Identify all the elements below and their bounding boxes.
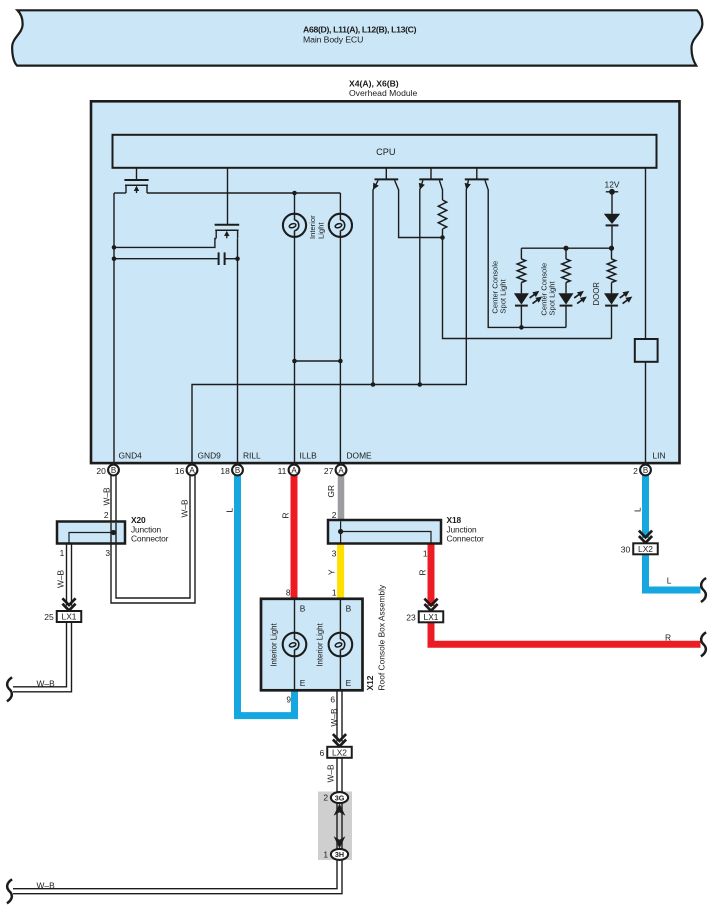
node Q4 emitter junction — [418, 382, 423, 387]
svg-text:A: A — [338, 466, 344, 475]
junction connector X18 — [328, 520, 441, 544]
pin label DOME — [347, 450, 373, 460]
wire W-B below 3H to left break — [13, 859, 342, 894]
wire led supply rail — [521, 247, 612, 249]
resistor R4 — [607, 248, 615, 293]
connector arrows to LX2 (roof) — [333, 734, 346, 747]
node lamp2 bottom — [338, 359, 343, 364]
svg-text:L: L — [632, 507, 642, 512]
node capacitor right junction — [235, 256, 240, 261]
node Q3 emitter junction — [371, 382, 376, 387]
LED center console spot light 2 — [559, 291, 587, 328]
svg-text:W–B: W–B — [37, 880, 56, 890]
wire R from X18 pin1 red — [431, 544, 701, 645]
svg-text:3H: 3H — [335, 850, 344, 859]
label W-B (bottom-left mid) — [37, 678, 56, 688]
connector terminal 3G — [331, 792, 348, 803]
transistor Q4 — [419, 168, 443, 190]
banner label A68/L11/L12/L13 — [303, 25, 417, 45]
svg-text:RILL: RILL — [243, 450, 261, 460]
svg-text:L: L — [667, 576, 672, 586]
svg-text:25: 25 — [44, 612, 54, 622]
svg-text:LIN: LIN — [653, 450, 666, 460]
node Q3/R1 junction — [440, 235, 445, 240]
3H pin number 1 — [323, 849, 328, 859]
pin label LIN — [653, 450, 666, 460]
svg-text:1: 1 — [332, 588, 337, 598]
lamp interior light 3 — [283, 599, 307, 691]
svg-text:W–B: W–B — [329, 708, 339, 727]
lamp interior light 4 — [329, 599, 353, 691]
wire R1 junction to DOOR led return — [443, 238, 612, 339]
lamp interior light 1 — [283, 193, 306, 465]
pin 20 (B) GND4 — [96, 465, 118, 476]
svg-text:LX1: LX1 — [62, 612, 77, 622]
svg-text:16: 16 — [175, 466, 185, 476]
svg-text:B: B — [235, 466, 240, 475]
LED DOOR — [604, 291, 632, 339]
node capacitor left junction — [112, 256, 117, 261]
svg-text:CPU: CPU — [376, 147, 395, 157]
wire W-B 3G to 3H — [337, 802, 342, 850]
label R (X18 pin1) — [417, 569, 427, 575]
wire R (ILLB) red — [291, 476, 298, 600]
pin label GND9 — [198, 450, 222, 460]
label center console spot light 2 — [540, 263, 557, 316]
svg-text:2: 2 — [633, 466, 638, 476]
transistor Q1 (MOSFET) — [124, 168, 148, 194]
svg-text:27: 27 — [324, 466, 334, 476]
wire lamp bottoms link — [295, 360, 341, 362]
svg-text:W–B: W–B — [179, 499, 189, 518]
label W-B (roof pin6) — [329, 708, 339, 727]
roof pin label E1 — [300, 678, 306, 688]
wire lamp supply rail — [147, 192, 340, 194]
wire W-B roof console pin6 — [337, 691, 342, 747]
label interior light 4 — [315, 622, 324, 666]
svg-text:GND9: GND9 — [198, 450, 222, 460]
svg-text:Overhead Module: Overhead Module — [349, 88, 418, 98]
svg-text:ILLB: ILLB — [300, 450, 318, 460]
wire break left (W-B mid) — [7, 677, 12, 701]
svg-text:11: 11 — [278, 466, 287, 476]
CPU block U1 — [113, 135, 657, 168]
wire Q5 collector / led return rail — [488, 190, 566, 328]
X18 pin 2 number — [332, 510, 337, 520]
wire Q2 source — [114, 239, 216, 248]
roof pin label E2 — [346, 678, 352, 688]
connector 23 LX1 — [406, 611, 443, 622]
wire W-B X20 pin3 to GND9 pin (U-route) — [111, 476, 195, 604]
svg-text:W–B: W–B — [101, 487, 111, 506]
wire W-B X20 pin1 down — [67, 544, 72, 612]
wire L (LIN) cyan — [646, 476, 701, 591]
node led rail / diode junction — [609, 246, 614, 251]
svg-text:18: 18 — [220, 466, 230, 476]
svg-text:6: 6 — [330, 695, 335, 705]
X20 pin 1 number — [60, 548, 65, 558]
transistor Q2 (MOSFET) — [215, 168, 240, 239]
roof pin label B2 — [346, 603, 352, 613]
svg-text:E: E — [300, 678, 306, 688]
svg-text:X20: X20 — [131, 515, 146, 525]
svg-text:X12: X12 — [365, 675, 375, 690]
pin label GND4 — [119, 450, 143, 460]
svg-text:L: L — [225, 508, 235, 513]
label W-B (bottom-left low) — [37, 880, 56, 890]
svg-text:DOME: DOME — [347, 450, 373, 460]
node lamp1 bottom — [292, 359, 297, 364]
roof console box X12 — [261, 599, 363, 691]
wire Q5 emitter / ground bus — [192, 190, 466, 465]
svg-text:2: 2 — [104, 510, 109, 520]
label X18 junction connector — [447, 515, 485, 544]
transistor Q3 — [373, 168, 399, 190]
3G pin number 2 — [323, 793, 328, 803]
junction connector X20 — [57, 522, 125, 544]
wire L (RILL) cyan — [238, 476, 295, 716]
transistor Q5 — [465, 168, 489, 190]
svg-text:DOOR: DOOR — [592, 282, 601, 306]
label W-B (X20 pin1) — [55, 569, 65, 588]
svg-text:1: 1 — [323, 849, 328, 859]
resistor R2 — [517, 248, 525, 293]
pin label ILLB — [300, 450, 318, 460]
label interior light 3 — [270, 622, 279, 666]
wire Y (X18 pin3) yellow — [337, 544, 344, 600]
overhead module box — [91, 101, 680, 463]
label center console spot light 1 — [490, 261, 507, 314]
svg-text:Main Body ECU: Main Body ECU — [303, 35, 363, 45]
arrow up to 3G — [334, 804, 346, 816]
overhead module connector label X4(A), X6(B) — [349, 79, 418, 98]
svg-text:B: B — [643, 466, 648, 475]
svg-text:R: R — [665, 632, 671, 642]
svg-text:20: 20 — [96, 466, 106, 476]
wire GND4 rail — [113, 193, 115, 465]
arrow down to 3H — [334, 836, 346, 848]
label L (RILL) — [225, 508, 235, 513]
label Y (X18) — [327, 569, 337, 575]
node led2 supply junction — [563, 246, 568, 251]
svg-text:Interior Light: Interior Light — [315, 622, 324, 666]
roof pin label B1 — [300, 603, 306, 613]
svg-text:3: 3 — [105, 548, 110, 558]
diode D1 — [604, 192, 620, 248]
svg-text:1: 1 — [60, 548, 65, 558]
X18 pin 1 number — [423, 549, 428, 559]
svg-text:23: 23 — [406, 612, 416, 622]
wire W-B LX1 to left break — [13, 622, 72, 692]
node lamp1 tap — [292, 191, 297, 196]
label R (ILLB) — [281, 512, 291, 518]
svg-text:LX1: LX1 — [424, 612, 439, 622]
label L (right) — [667, 576, 672, 586]
svg-text:8: 8 — [286, 588, 291, 598]
pin 18 (B) RILL — [220, 465, 242, 476]
pin 2 (B) LIN — [633, 465, 651, 476]
X20 pin 2 number — [104, 510, 109, 520]
wire Q2 drain / RILL line — [237, 239, 239, 465]
svg-text:Roof Console Box Assembly: Roof Console Box Assembly — [377, 584, 387, 690]
connector arrows to LX2 (LIN) — [639, 531, 652, 544]
svg-text:3G: 3G — [335, 793, 345, 802]
svg-text:W–B: W–B — [37, 678, 56, 688]
label W-B (GND9) — [179, 499, 189, 518]
label W-B (GND4) — [101, 487, 111, 506]
svg-text:1: 1 — [423, 549, 428, 559]
svg-text:W–B: W–B — [55, 569, 65, 588]
svg-text:A68(D), L11(A), L12(B), L13(C): A68(D), L11(A), L12(B), L13(C) — [303, 25, 417, 35]
wire W-B LX2 to 3G — [337, 758, 342, 793]
svg-text:Connector: Connector — [447, 534, 485, 544]
pin label RILL — [243, 450, 261, 460]
connector 30 LX2 — [621, 543, 658, 554]
node led1 return junction — [519, 325, 524, 330]
roof pin number 9 — [286, 695, 291, 705]
LED center console spot light 1 — [514, 291, 542, 328]
wire break right (R) — [701, 632, 706, 656]
svg-text:Y: Y — [327, 569, 337, 575]
resistor R3 — [562, 248, 570, 293]
label interior light (module) — [308, 215, 325, 239]
svg-text:Interior Light: Interior Light — [270, 622, 279, 666]
svg-text:2: 2 — [332, 510, 337, 520]
svg-text:6: 6 — [320, 748, 325, 758]
wire Q4 emitter — [419, 190, 421, 385]
X18 pin 3 number — [332, 549, 337, 559]
svg-text:12V: 12V — [605, 180, 620, 190]
svg-text:9: 9 — [286, 695, 291, 705]
X20 pin 3 number — [105, 548, 110, 558]
capacitor C1 — [114, 252, 238, 265]
svg-text:LX2: LX2 — [638, 544, 653, 554]
wire Q3 emitter — [372, 190, 374, 385]
roof pin number 6 — [330, 695, 335, 705]
label W-B (LX2 to 3G) — [325, 764, 335, 783]
label X12 roof console box assembly — [365, 584, 387, 690]
pin 16 (A) GND9 — [175, 465, 197, 476]
svg-text:A: A — [291, 466, 297, 475]
svg-text:R: R — [281, 512, 291, 518]
label GR (DOME) — [326, 485, 336, 498]
svg-text:GR: GR — [326, 485, 336, 498]
svg-text:B: B — [346, 603, 352, 613]
inline connector shading — [318, 792, 352, 861]
wire LIN internal upper — [645, 168, 647, 340]
node Q2 source-rail junction — [112, 245, 117, 250]
svg-text:LX2: LX2 — [332, 748, 347, 758]
svg-text:B: B — [111, 466, 116, 475]
connector arrows to LX1 (W-B) — [62, 598, 75, 611]
label DOOR — [592, 282, 601, 306]
lamp interior light 2 — [329, 193, 352, 465]
wire Q1 source to rail — [114, 192, 126, 194]
label R (right) — [665, 632, 671, 642]
connector terminal 3H — [331, 849, 348, 860]
wire Q3 collector — [399, 190, 443, 238]
svg-text:30: 30 — [621, 544, 631, 554]
LIN interface block — [635, 339, 658, 362]
pin 11 (A) ILLB — [278, 465, 300, 476]
wire break right (L) — [701, 578, 706, 602]
connector arrows to LX1 (red) — [424, 599, 437, 612]
svg-text:R: R — [417, 569, 427, 575]
ECU banner (Main Body ECU) — [12, 10, 702, 65]
svg-text:W–B: W–B — [325, 764, 335, 783]
label L (LIN) — [632, 507, 642, 512]
svg-text:3: 3 — [332, 549, 337, 559]
svg-text:E: E — [346, 678, 352, 688]
connector 6 LX2 — [320, 747, 352, 758]
svg-text:Connector: Connector — [131, 534, 169, 544]
wire GR (DOME) gray — [338, 476, 345, 522]
wire break left (W-B bottom) — [7, 879, 12, 903]
connector 25 LX1 — [44, 611, 81, 622]
svg-text:X18: X18 — [447, 515, 462, 525]
svg-text:2: 2 — [323, 793, 328, 803]
roof pin number 8 — [286, 588, 291, 598]
svg-text:B: B — [300, 603, 306, 613]
pin 27 (A) DOME — [324, 465, 346, 476]
12V supply terminal — [605, 180, 620, 195]
label X20 junction connector — [131, 515, 169, 544]
roof pin number 1 — [332, 588, 337, 598]
resistor R1 — [438, 190, 446, 238]
wire W-B from GND4 pin — [111, 476, 116, 533]
wire LIN internal lower — [645, 362, 647, 465]
svg-text:A: A — [189, 466, 195, 475]
svg-text:GND4: GND4 — [119, 450, 143, 460]
